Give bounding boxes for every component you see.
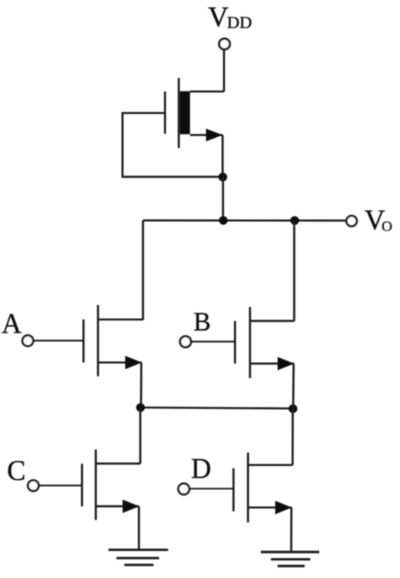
svg-text:A: A [2, 309, 23, 340]
wire N2 down to MD drain [292, 409, 294, 465]
transistor MC channel [95, 450, 97, 521]
label D [191, 454, 211, 485]
wire MC source down to ground [138, 506, 140, 550]
label B [194, 307, 211, 336]
transistor MA source arrow [125, 356, 142, 369]
transistor MD gate bar [232, 468, 234, 511]
junction dot rail center [219, 216, 228, 225]
wire rail to MB drain [293, 221, 295, 321]
transistor M1 gate bar [164, 92, 166, 134]
transistor MB gate bar [234, 321, 236, 364]
transistor MC source stub [96, 505, 139, 507]
transistor M1 drain stub [190, 90, 224, 92]
mid rail node N2 [141, 408, 294, 409]
label VDD [208, 2, 252, 33]
transistor MB source stub [250, 363, 294, 365]
wire B input to gate [191, 341, 235, 343]
terminal D [178, 484, 189, 495]
transistor MC gate bar [81, 464, 83, 507]
transistor MC source arrow [123, 500, 140, 513]
transistor MD channel [247, 453, 249, 523]
transistor MA source stub [98, 361, 142, 363]
svg-text:C: C [7, 456, 26, 487]
ground D [261, 552, 320, 566]
wire VDD down to M1 [223, 50, 225, 92]
wire MD source down to ground [290, 508, 292, 553]
terminal VO [346, 216, 356, 226]
transistor MA gate bar [82, 320, 84, 363]
transistor MB drain stub [250, 320, 294, 322]
wire M1 source down to node N1 [222, 135, 224, 177]
wire N2 down to MC drain [139, 408, 141, 464]
svg-text:O: O [382, 219, 393, 235]
svg-text:D: D [191, 454, 211, 485]
terminal A [22, 335, 33, 346]
transistor M1 channel [178, 78, 180, 148]
transistor MB source arrow [278, 357, 295, 370]
transistor MA drain stub [98, 318, 143, 320]
junction dot rail right [290, 216, 299, 225]
wire C input to gate [39, 485, 82, 487]
label A [2, 309, 23, 340]
wire M1 gate loop [123, 113, 223, 177]
terminal C [28, 480, 39, 491]
wire MA source down to mid rail [140, 363, 142, 408]
wire MB source down to mid rail [292, 364, 294, 409]
transistor MD source arrow [275, 501, 292, 514]
wire rail down to MA drain [142, 220, 144, 320]
label C [7, 456, 26, 487]
wire A input to gate [33, 340, 83, 342]
transistor M1 source arrow [206, 129, 223, 142]
output rail [143, 219, 346, 221]
ground C [109, 550, 169, 565]
junction dot N2 right [289, 404, 298, 413]
wire D input to gate [189, 488, 233, 490]
terminal VDD [219, 39, 230, 50]
svg-text:B: B [194, 307, 211, 336]
transistor MD drain stub [248, 464, 293, 466]
terminal B [180, 336, 191, 347]
transistor M1 source stub [190, 134, 223, 136]
transistor MC drain stub [96, 463, 141, 465]
junction dot node N1 [218, 173, 227, 182]
label VO [365, 205, 393, 236]
transistor MA channel [97, 305, 99, 376]
wire N1 down to output rail [222, 177, 224, 220]
transistor M1 depletion bar [180, 91, 190, 134]
svg-text:V: V [208, 2, 229, 33]
svg-text:DD: DD [227, 13, 252, 32]
transistor MD source stub [248, 506, 292, 508]
junction dot N2 left [136, 403, 145, 412]
transistor MB channel [249, 307, 251, 378]
